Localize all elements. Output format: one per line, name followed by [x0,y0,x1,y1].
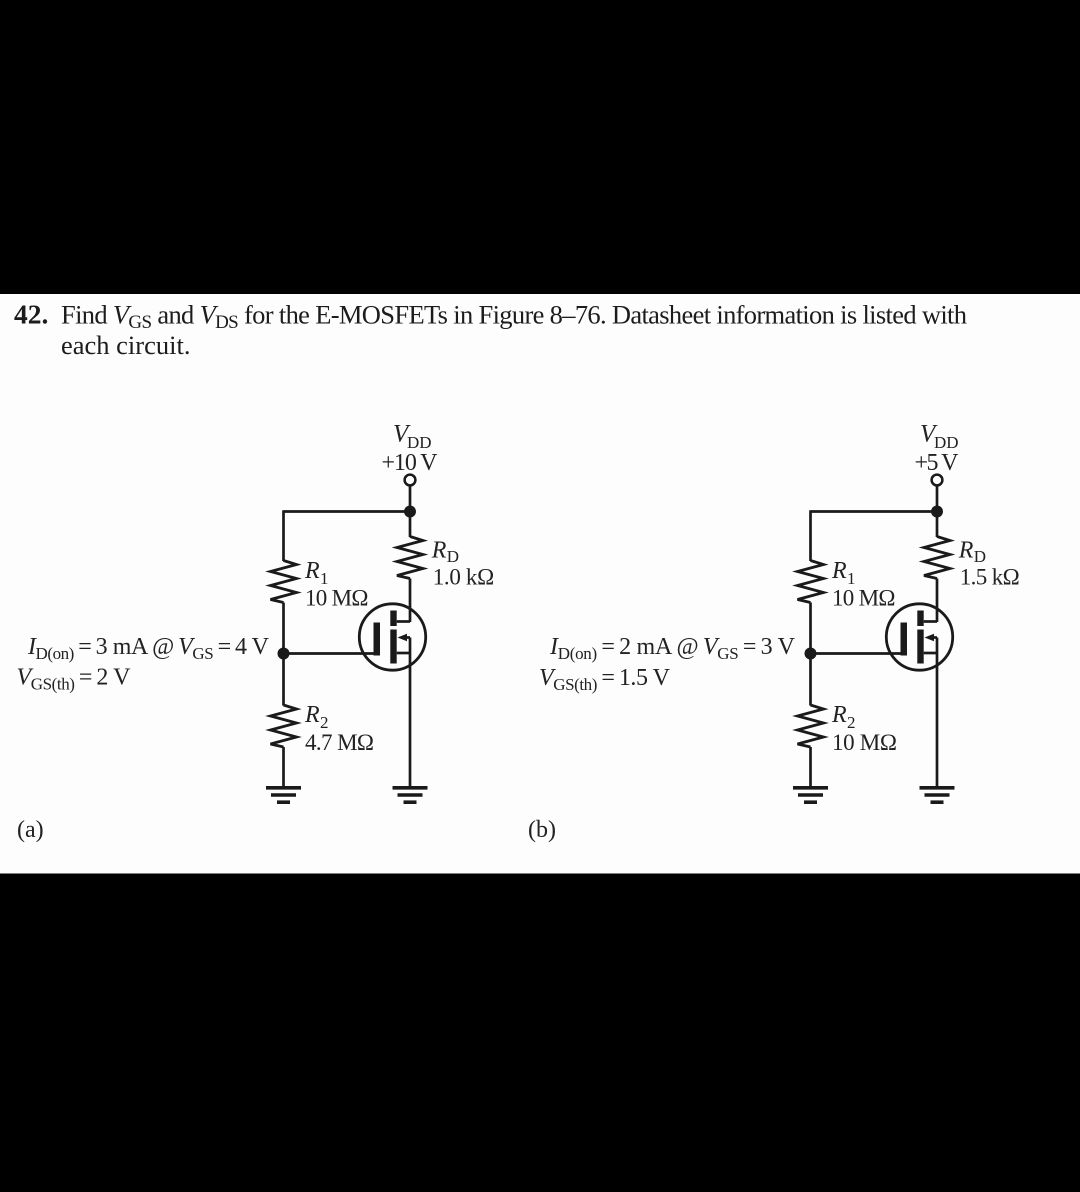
transistor Q E-MOSFET (a) [359,604,425,670]
resistor R1 (b) [798,561,824,603]
svg-text:1.0 kΩ: 1.0 kΩ [433,565,495,590]
power VDD terminal (b) [932,475,943,486]
wire gate lead (b) [811,652,901,655]
svg-text:R: R [958,538,974,564]
transistor body circle (a) [359,604,425,670]
substrate-to-source link (a) [409,638,412,654]
svg-text:D: D [447,547,459,566]
svg-text:42.: 42. [14,299,48,330]
ground left (b) [793,788,828,802]
wire VDD terminal to supply node (b) [936,486,939,512]
svg-text:(a): (a) [17,817,44,843]
drain tab (a) [397,620,410,623]
wire VDD terminal to supply node (a) [409,486,412,512]
svg-text:Find VGS and VDS for the E-MOS: Find VGS and VDS for the E-MOSFETs in Fi… [61,300,967,334]
substrate arrow (b) [929,636,938,639]
node supply junction (a) [404,506,416,518]
node gate junction (b) [805,648,817,660]
channel segment lower (a) [390,630,396,664]
substrate-to-source link (b) [936,638,939,654]
wire source to ground (a) [409,653,412,788]
svg-text:R: R [304,558,320,584]
ground left (a) [266,788,301,802]
wire gate node down to R2 (b) [809,654,812,706]
svg-text:(b): (b) [528,817,556,843]
wire R1 to gate node (a) [282,603,285,654]
wire R2 to ground (a) [282,747,285,788]
svg-text:R: R [831,558,847,584]
wire RD to drain (a) [409,579,412,623]
gate bar (a) [374,623,381,656]
svg-text:+10 V: +10 V [382,450,439,476]
source tab (b) [924,652,937,655]
white page band [0,294,1080,874]
wire supply node down to RD (a) [409,512,412,538]
svg-text:4.7 MΩ: 4.7 MΩ [305,730,374,755]
power VDD terminal (a) [405,475,416,486]
svg-text:10 MΩ: 10 MΩ [305,586,369,611]
wire gate lead (a) [284,652,374,655]
wire source to ground (b) [936,653,939,788]
wire top rail (b) [811,510,938,513]
wire supply node down to RD (b) [936,512,939,538]
svg-text:10 MΩ: 10 MΩ [832,586,896,611]
drain tab (b) [924,620,937,623]
substrate arrow (a) [402,636,411,639]
resistor R1 (a) [271,561,297,603]
transistor Q E-MOSFET (b) [886,604,952,670]
resistor R2 (b) [798,705,824,747]
wire RD to drain (b) [936,579,939,623]
resistor R2 (a) [271,705,297,747]
svg-text:+5 V: +5 V [915,450,960,476]
wire rail down to R1 (a) [282,510,285,561]
svg-text:R: R [831,702,847,728]
gate bar (b) [901,623,908,656]
ground right (a) [393,788,428,802]
wire R1 to gate node (b) [809,603,812,654]
node supply junction (b) [931,506,943,518]
ground right (b) [920,788,955,802]
transistor body circle (b) [886,604,952,670]
resistor RD (a) [397,537,423,579]
channel segment lower (b) [917,630,923,664]
resistor RD (b) [924,537,950,579]
svg-text:10 MΩ: 10 MΩ [832,730,897,755]
channel segment upper (a) [390,611,396,627]
svg-text:D: D [974,547,986,566]
source tab (a) [397,652,410,655]
wire gate node down to R2 (a) [282,654,285,706]
svg-text:R: R [304,702,320,728]
svg-text:each circuit.: each circuit. [61,330,190,360]
svg-text:1.5 kΩ: 1.5 kΩ [960,565,1020,590]
wire top rail (a) [284,510,411,513]
wire rail down to R1 (b) [809,510,812,561]
node gate junction (a) [278,648,290,660]
svg-text:R: R [431,538,447,564]
channel segment upper (b) [917,611,923,627]
wire R2 to ground (b) [809,747,812,788]
